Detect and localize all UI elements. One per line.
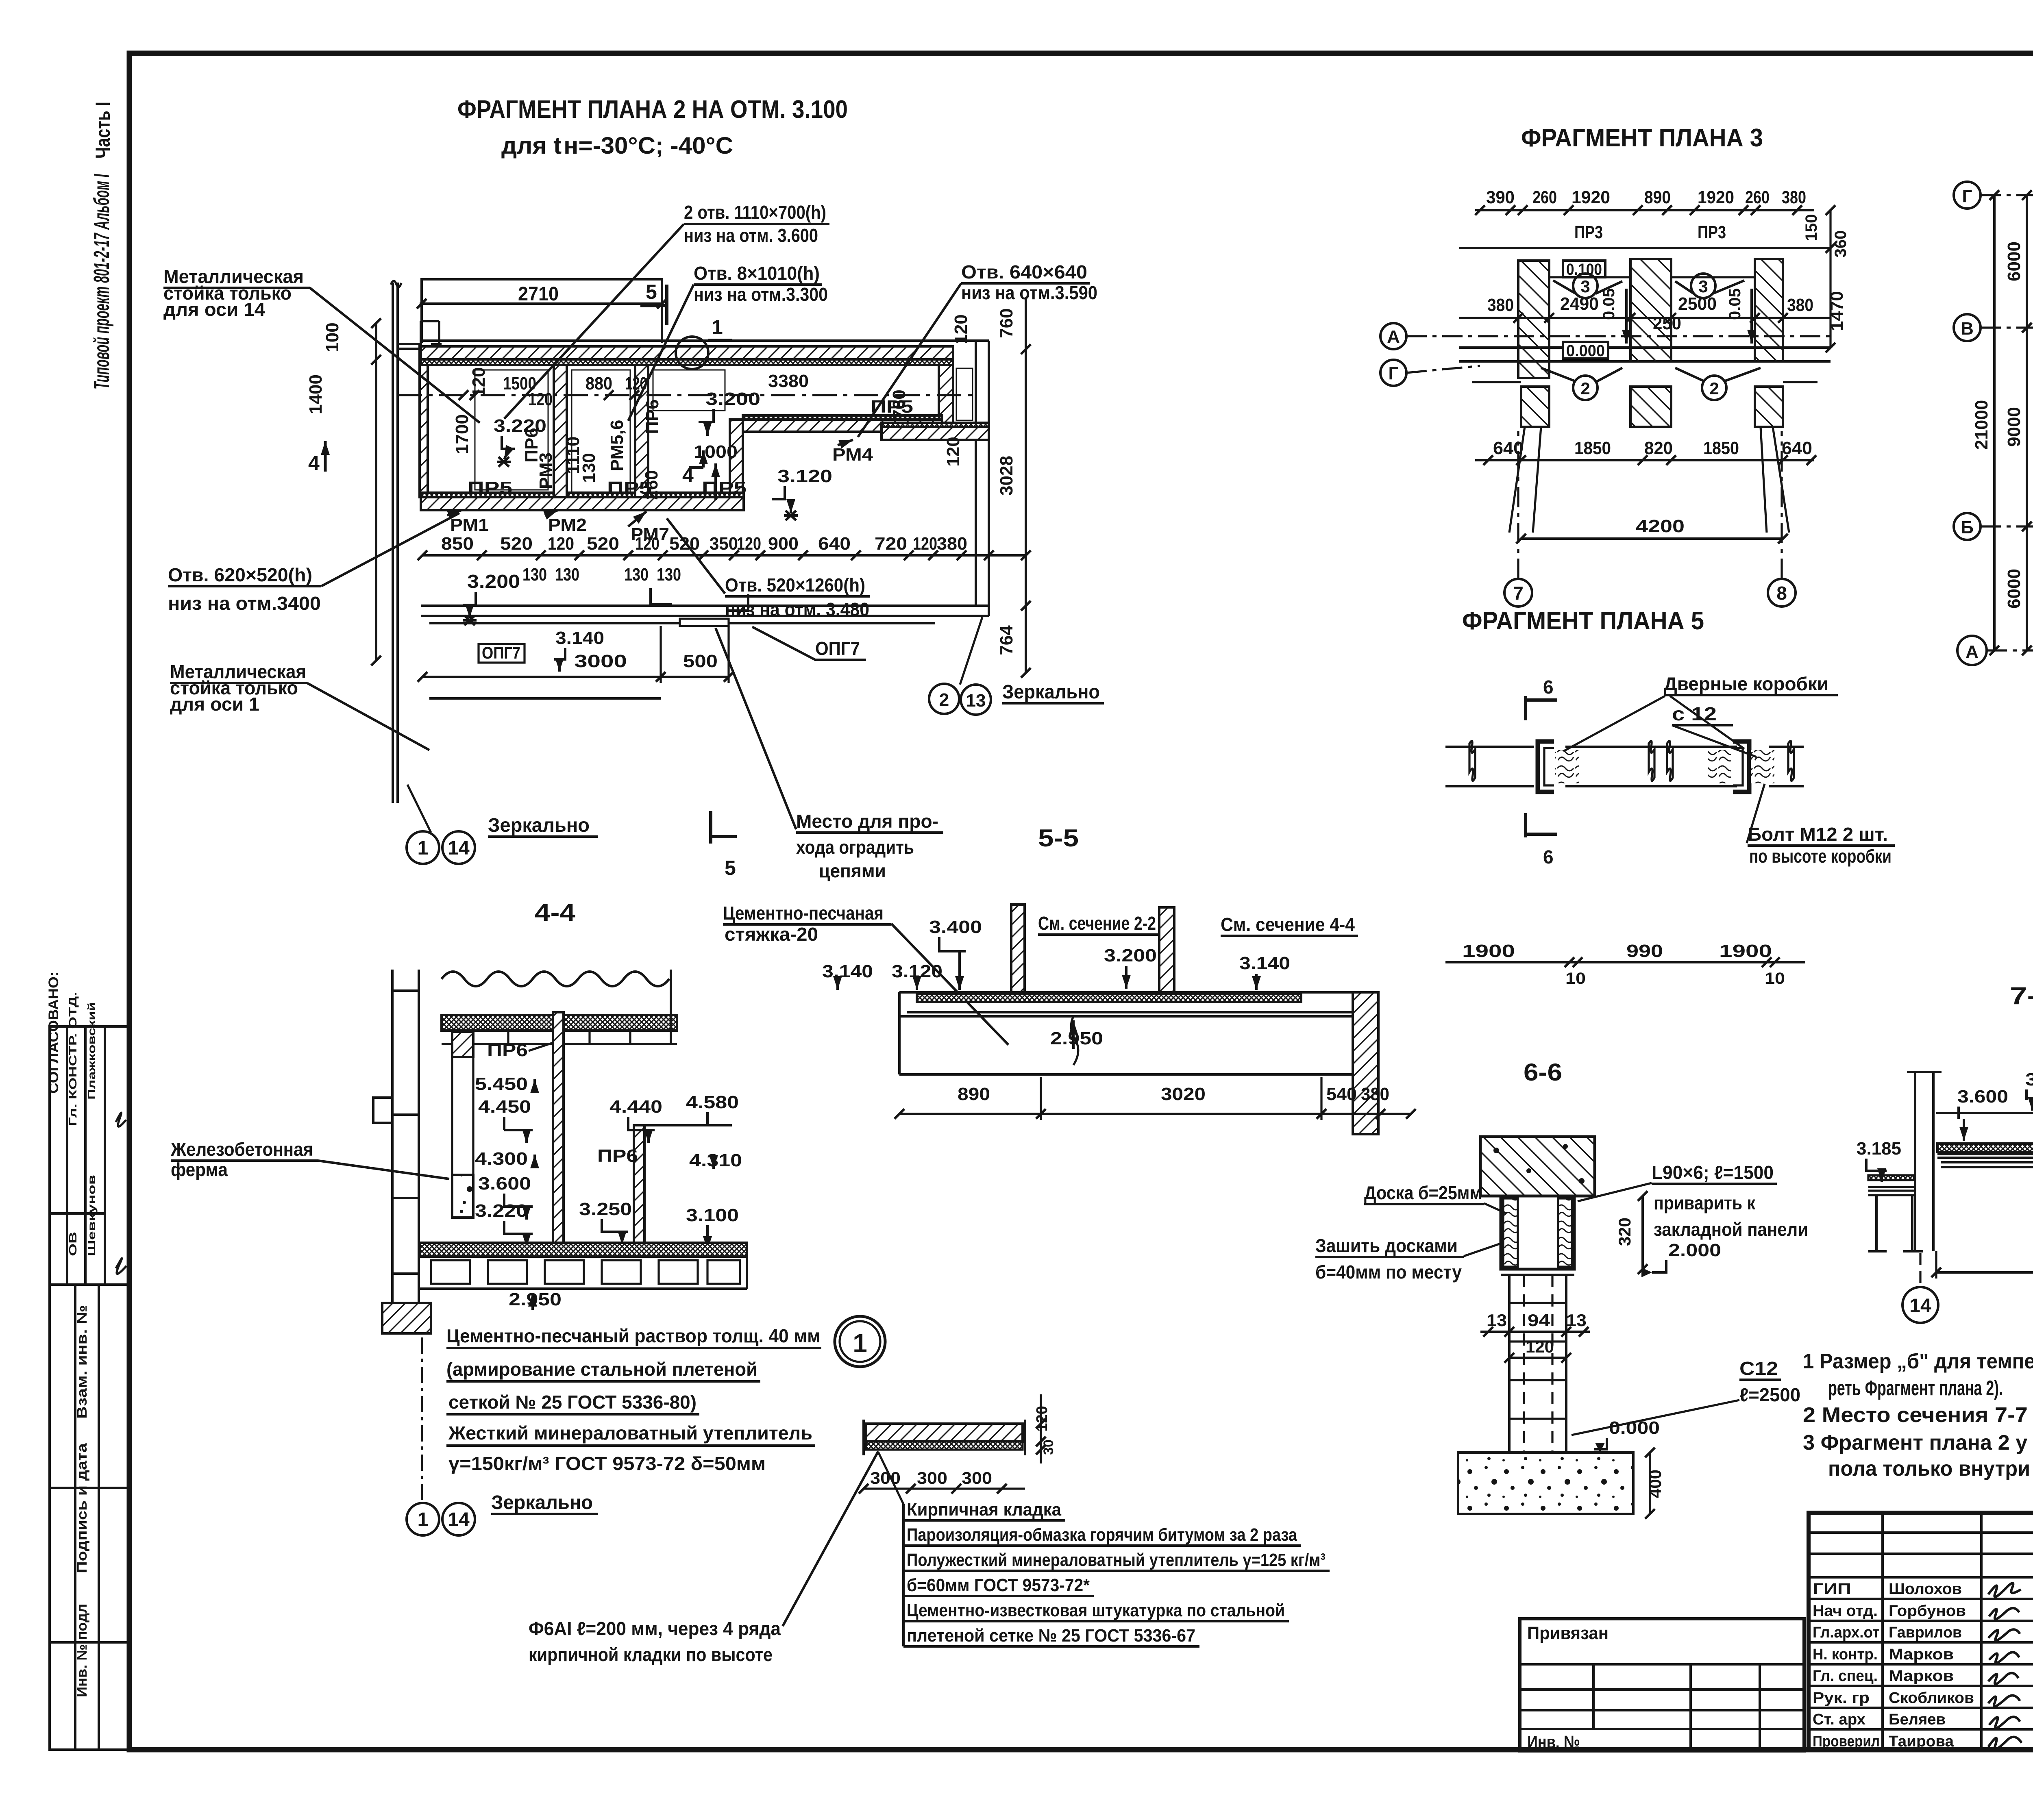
svg-text:6-6: 6-6	[1524, 1059, 1562, 1086]
svg-text:б=40мм по месту: б=40мм по месту	[1315, 1261, 1462, 1283]
svg-text:1: 1	[418, 837, 429, 859]
svg-text:390: 390	[1486, 187, 1515, 207]
svg-text:РМ5,6: РМ5,6	[607, 420, 627, 472]
svg-text:520: 520	[669, 534, 700, 554]
svg-text:990: 990	[1626, 941, 1663, 961]
svg-text:0.000: 0.000	[1609, 1418, 1660, 1438]
svg-text:низ на отм.3.300: низ на отм.3.300	[694, 284, 828, 305]
svg-text:120: 120	[528, 389, 553, 409]
svg-text:900: 900	[768, 534, 799, 554]
svg-text:Зашить досками: Зашить досками	[1315, 1235, 1458, 1256]
svg-text:3.600: 3.600	[1957, 1087, 2008, 1107]
svg-text:500: 500	[683, 651, 718, 671]
svg-text:2710: 2710	[518, 283, 559, 305]
svg-text:2.950: 2.950	[509, 1289, 562, 1309]
svg-text:300: 300	[870, 1468, 901, 1487]
svg-text:360: 360	[1832, 230, 1850, 258]
svg-text:300: 300	[917, 1468, 947, 1487]
svg-text:Часть I: Часть I	[91, 102, 114, 159]
svg-text:3.200: 3.200	[705, 389, 760, 409]
svg-text:764: 764	[997, 625, 1016, 655]
svg-text:3.140: 3.140	[1239, 953, 1290, 973]
svg-text:Гл. спец.: Гл. спец.	[1813, 1668, 1878, 1685]
svg-text:СОГЛАСОВАНО:: СОГЛАСОВАНО:	[46, 972, 61, 1094]
svg-text:Зеркально: Зеркально	[491, 1492, 593, 1513]
svg-text:L90×6; ℓ=1500: L90×6; ℓ=1500	[1652, 1162, 1774, 1183]
svg-text:закладной панели: закладной панели	[1654, 1219, 1808, 1240]
svg-text:820: 820	[1644, 438, 1673, 458]
svg-text:14: 14	[448, 837, 470, 859]
svg-text:4.300: 4.300	[475, 1149, 528, 1169]
svg-text:5-5: 5-5	[1038, 824, 1079, 852]
svg-text:1900: 1900	[1462, 941, 1515, 961]
svg-text:3: 3	[1580, 277, 1590, 296]
svg-text:Цементно-песчаный раствор толщ: Цементно-песчаный раствор толщ. 40 мм	[446, 1325, 821, 1346]
svg-text:Отв. 620×520(h): Отв. 620×520(h)	[168, 564, 312, 585]
svg-text:520: 520	[587, 534, 619, 554]
svg-text:низ на отм.3.590: низ на отм.3.590	[961, 282, 1097, 303]
svg-text:Рук. гр: Рук. гр	[1813, 1690, 1870, 1707]
svg-text:0.05: 0.05	[1600, 288, 1618, 320]
svg-text:Цементно-песчаная: Цементно-песчаная	[723, 902, 884, 924]
svg-text:Кирпичная кладка: Кирпичная кладка	[907, 1500, 1061, 1520]
svg-text:Беляев: Беляев	[1889, 1711, 1946, 1728]
svg-text:14: 14	[448, 1509, 470, 1531]
svg-text:Отв. 8×1010(h): Отв. 8×1010(h)	[694, 263, 820, 284]
svg-text:хода оградить: хода оградить	[796, 837, 914, 858]
svg-text:1920: 1920	[1572, 187, 1610, 207]
svg-text:Марков: Марков	[1889, 1646, 1954, 1663]
svg-text:Г: Г	[1962, 186, 1972, 206]
svg-text:Отв. 520×1260(h): Отв. 520×1260(h)	[725, 574, 865, 596]
svg-text:1: 1	[712, 316, 723, 339]
svg-text:380: 380	[937, 534, 967, 554]
svg-text:Гл.арх.от: Гл.арх.от	[1813, 1624, 1880, 1641]
svg-text:Место для про-: Место для про-	[796, 811, 938, 832]
svg-text:6000: 6000	[2004, 241, 2024, 281]
svg-text:Цементно-известковая штукатурк: Цементно-известковая штукатурка по сталь…	[907, 1600, 1285, 1620]
svg-text:для оси 14: для оси 14	[163, 299, 265, 320]
svg-text:Типовой проект 801-2-17 Альбом: Типовой проект 801-2-17 Альбом I	[89, 174, 114, 389]
svg-text:Болт М12 2 шт.: Болт М12 2 шт.	[1748, 824, 1888, 845]
svg-text:РМ3: РМ3	[536, 452, 556, 489]
svg-text:Жесткий минераловатный утеплит: Жесткий минераловатный утеплитель	[448, 1422, 812, 1444]
svg-text:Инв. №: Инв. №	[1527, 1732, 1580, 1752]
svg-text:320: 320	[1615, 1218, 1634, 1246]
svg-text:3000: 3000	[574, 651, 627, 671]
svg-text:В: В	[1961, 319, 1974, 339]
svg-text:для оси 1: для оси 1	[170, 694, 259, 715]
svg-text:пола только внутри вентиляцион: пола только внутри вентиляционных камер.	[1828, 1457, 2033, 1481]
svg-text:260: 260	[642, 470, 662, 500]
svg-text:4200: 4200	[1636, 516, 1685, 536]
svg-text:Гаврилов: Гаврилов	[1889, 1624, 1962, 1641]
svg-text:13: 13	[1487, 1311, 1507, 1330]
svg-text:3.220: 3.220	[475, 1201, 528, 1221]
svg-text:А: А	[1387, 327, 1400, 347]
svg-text:Шолохов: Шолохов	[1889, 1581, 1962, 1598]
svg-text:0.05: 0.05	[1726, 288, 1744, 320]
svg-text:Зеркально: Зеркально	[1002, 681, 1100, 703]
svg-text:9000: 9000	[2004, 407, 2024, 447]
svg-text:ГИП: ГИП	[1813, 1581, 1851, 1598]
svg-text:с 12: с 12	[1672, 703, 1717, 724]
svg-text:1470: 1470	[1827, 291, 1847, 331]
svg-text:2.950: 2.950	[1050, 1029, 1103, 1048]
svg-text:1: 1	[853, 1329, 867, 1358]
svg-text:плетеной сетке № 25 ГОСТ 5336: плетеной сетке № 25 ГОСТ 5336-67	[907, 1626, 1195, 1646]
svg-text:6: 6	[1543, 846, 1554, 868]
svg-text:ферма: ферма	[171, 1159, 228, 1180]
svg-text:Ст. арх: Ст. арх	[1813, 1711, 1865, 1728]
svg-text:520: 520	[500, 534, 533, 554]
svg-text:3.200: 3.200	[467, 571, 520, 592]
svg-text:Ф6АI ℓ=200 мм, через 4 ряда: Ф6АI ℓ=200 мм, через 4 ряда	[529, 1618, 781, 1639]
svg-text:ПР6: ПР6	[642, 399, 662, 434]
svg-text:13: 13	[1566, 1311, 1587, 1330]
svg-text:ПР5: ПР5	[468, 478, 512, 498]
svg-text:760: 760	[997, 308, 1016, 338]
svg-text:3.250: 3.250	[579, 1199, 632, 1219]
svg-text:5.450: 5.450	[475, 1074, 528, 1094]
svg-text:260: 260	[1532, 187, 1557, 207]
svg-text:низ на отм. 3.600: низ на отм. 3.600	[684, 225, 818, 246]
svg-text:4.310: 4.310	[689, 1150, 742, 1170]
svg-text:ℓ=2500: ℓ=2500	[1739, 1384, 1800, 1405]
svg-text:3: 3	[1698, 277, 1708, 296]
svg-text:3.100: 3.100	[686, 1205, 739, 1225]
svg-text:21000: 21000	[1972, 400, 1992, 450]
svg-text:4.450: 4.450	[478, 1097, 531, 1117]
svg-text:низ на отм.3400: низ на отм.3400	[168, 593, 321, 614]
svg-text:Пароизоляция-обмазка горячим б: Пароизоляция-обмазка горячим битумом за …	[907, 1525, 1297, 1545]
svg-text:890: 890	[958, 1084, 990, 1104]
svg-text:С12: С12	[1739, 1358, 1778, 1379]
svg-text:Полужесткий минераловатный уте: Полужесткий минераловатный утеплитель γ=…	[907, 1550, 1326, 1570]
svg-text:Инв. № подл: Инв. № подл	[74, 1604, 90, 1697]
svg-text:120: 120	[913, 534, 937, 554]
svg-text:Зеркально: Зеркально	[488, 815, 590, 836]
svg-text:3.140: 3.140	[555, 628, 604, 648]
svg-text:880: 880	[586, 374, 612, 394]
svg-text:Проверил: Проверил	[1813, 1733, 1880, 1750]
svg-text:ОПГ7: ОПГ7	[482, 643, 520, 662]
svg-text:1: 1	[418, 1509, 429, 1531]
svg-text:цепями: цепями	[819, 860, 886, 881]
svg-text:Н. контр.: Н. контр.	[1813, 1646, 1878, 1663]
svg-text:кирпичной кладки по высоте: кирпичной кладки по высоте	[529, 1644, 773, 1665]
svg-text:4.580: 4.580	[686, 1092, 739, 1112]
svg-text:γ=150кг/м³ ГОСТ 9573-72 δ=50: γ=150кг/м³ ГОСТ 9573-72 δ=50мм	[448, 1453, 766, 1474]
svg-text:Б: Б	[1961, 518, 1974, 537]
svg-text:13: 13	[966, 691, 986, 711]
svg-text:1400: 1400	[306, 374, 326, 414]
svg-text:3.400: 3.400	[929, 917, 982, 937]
svg-text:120: 120	[548, 534, 574, 554]
svg-text:Марков: Марков	[1889, 1668, 1954, 1685]
svg-text:760: 760	[889, 389, 909, 419]
svg-text:94: 94	[1528, 1311, 1550, 1330]
svg-text:2 отв. 1110×700(h): 2 отв. 1110×700(h)	[684, 202, 826, 223]
svg-text:1850: 1850	[1574, 438, 1611, 458]
svg-text:3028: 3028	[997, 456, 1016, 496]
svg-text:А: А	[1966, 642, 1979, 662]
svg-text:130: 130	[555, 565, 579, 585]
svg-text:150: 150	[1802, 214, 1820, 241]
svg-text:по высоте коробки: по высоте коробки	[1749, 846, 1892, 867]
svg-text:РМ4: РМ4	[832, 445, 873, 465]
svg-text:640: 640	[818, 534, 851, 554]
svg-text:380: 380	[1487, 295, 1514, 315]
svg-text:сеткой № 25 ГОСТ 5336-80): сеткой № 25 ГОСТ 5336-80)	[448, 1392, 697, 1413]
svg-text:1920: 1920	[1698, 187, 1734, 207]
svg-text:380: 380	[1782, 187, 1806, 207]
svg-text:Железобетонная: Железобетонная	[170, 1139, 313, 1160]
svg-text:Дверные коробки: Дверные коробки	[1664, 673, 1828, 694]
svg-text:для t н=-30°С; -40°С: для t н=-30°С; -40°С	[501, 133, 733, 159]
svg-text:ФРАГМЕНТ ПЛАНА 5: ФРАГМЕНТ ПЛАНА 5	[1462, 607, 1704, 635]
svg-text:Привязан: Привязан	[1527, 1623, 1609, 1643]
svg-text:Доска б=25мм: Доска б=25мм	[1364, 1182, 1482, 1203]
svg-text:Взам. инв. №: Взам. инв. №	[74, 1305, 90, 1419]
svg-text:3.120: 3.120	[892, 961, 942, 981]
svg-text:Отв. 640×640: Отв. 640×640	[961, 261, 1087, 283]
svg-text:ПР6: ПР6	[597, 1146, 638, 1166]
svg-text:3.600: 3.600	[478, 1174, 531, 1194]
svg-text:Гл. КОНСТР. ОТД.: Гл. КОНСТР. ОТД.	[67, 992, 79, 1126]
svg-text:0.100: 0.100	[1566, 261, 1602, 278]
svg-text:(армирование стальной плетеной: (армирование стальной плетеной	[446, 1359, 757, 1380]
svg-text:РМ1: РМ1	[450, 515, 489, 535]
svg-text:ПР6: ПР6	[487, 1040, 528, 1060]
svg-text:Таирова: Таирова	[1889, 1733, 1954, 1750]
svg-text:400: 400	[1646, 1470, 1665, 1498]
svg-text:См. сечение 2-2: См. сечение 2-2	[1038, 913, 1156, 934]
svg-text:ОВ: ОВ	[67, 1232, 79, 1256]
svg-text:10: 10	[1565, 970, 1586, 987]
svg-text:120: 120	[625, 374, 647, 394]
svg-text:130: 130	[657, 565, 681, 585]
svg-text:3.850: 3.850	[2025, 1070, 2033, 1089]
svg-text:3.185: 3.185	[1857, 1139, 1901, 1159]
svg-text:реть Фрагмент плана 2).: реть Фрагмент плана 2).	[1828, 1376, 2003, 1400]
svg-text:1700: 1700	[452, 414, 472, 454]
svg-text:10: 10	[1765, 970, 1785, 987]
svg-text:ФРАГМЕНТ ПЛАНА 2 НА ОТМ. 3.100: ФРАГМЕНТ ПЛАНА 2 НА ОТМ. 3.100	[457, 96, 848, 124]
svg-text:См. сечение 4-4: См. сечение 4-4	[1221, 914, 1355, 935]
svg-text:7-7: 7-7	[2010, 982, 2033, 1009]
svg-text:2.000: 2.000	[1668, 1240, 1721, 1260]
svg-text:3.200: 3.200	[1104, 946, 1157, 965]
svg-text:720: 720	[875, 534, 907, 554]
svg-text:3.140: 3.140	[822, 961, 873, 981]
svg-text:ПР3: ПР3	[1574, 222, 1603, 242]
svg-text:4.440: 4.440	[609, 1097, 662, 1117]
svg-text:1850: 1850	[1703, 438, 1739, 458]
svg-text:2: 2	[1709, 379, 1719, 398]
svg-text:120: 120	[635, 534, 660, 554]
svg-text:приварить к: приварить к	[1654, 1192, 1756, 1213]
svg-text:120: 120	[951, 314, 971, 344]
svg-text:Шевкунов: Шевкунов	[85, 1175, 98, 1256]
svg-text:5: 5	[646, 281, 657, 303]
svg-text:6: 6	[1543, 676, 1554, 698]
svg-text:120: 120	[943, 437, 963, 466]
svg-text:380: 380	[1787, 295, 1813, 315]
svg-text:Скобликов: Скобликов	[1889, 1690, 1974, 1707]
svg-text:350: 350	[710, 534, 738, 554]
svg-text:120: 120	[737, 534, 761, 554]
svg-text:1 Размер „б" для температуры: 1 Размер „б" для температуры t н=-30° - …	[1803, 1350, 2033, 1373]
svg-text:540: 540	[1326, 1084, 1357, 1104]
svg-text:3 Фрагмент плана 2 у оси 14 з: 3 Фрагмент плана 2 у оси 14 зеркален фра…	[1803, 1431, 2033, 1455]
svg-text:РМ2: РМ2	[548, 515, 587, 535]
svg-text:ПР3: ПР3	[1698, 222, 1726, 242]
svg-text:Плажковский: Плажковский	[85, 1002, 98, 1100]
svg-text:Подпись и дата: Подпись и дата	[74, 1443, 90, 1573]
svg-text:Г: Г	[1389, 363, 1399, 383]
svg-text:300: 300	[962, 1468, 992, 1487]
svg-text:4-4: 4-4	[535, 899, 576, 926]
svg-text:5: 5	[725, 857, 736, 879]
svg-text:130: 130	[522, 565, 547, 585]
svg-text:14: 14	[1909, 1295, 1931, 1317]
svg-text:1900: 1900	[1719, 941, 1772, 961]
svg-text:130: 130	[579, 453, 599, 483]
svg-text:380: 380	[1361, 1084, 1389, 1104]
svg-text:ОПГ7: ОПГ7	[815, 638, 860, 659]
svg-text:2 Место сечения 7-7 см на лис: 2 Место сечения 7-7 см на листе АР-4.	[1803, 1403, 2033, 1427]
svg-text:ПР5: ПР5	[702, 478, 747, 498]
svg-text:Нач отд.: Нач отд.	[1813, 1603, 1878, 1620]
svg-text:120: 120	[1526, 1337, 1554, 1356]
svg-text:0.000: 0.000	[1566, 342, 1605, 360]
svg-text:3.120: 3.120	[777, 466, 832, 486]
svg-text:8: 8	[1776, 583, 1787, 604]
svg-text:130: 130	[624, 565, 649, 585]
svg-text:б=60мм ГОСТ 9573-72*: б=60мм ГОСТ 9573-72*	[907, 1575, 1090, 1595]
svg-text:стяжка-20: стяжка-20	[725, 924, 818, 945]
svg-text:2: 2	[939, 690, 949, 710]
svg-text:260: 260	[1745, 187, 1770, 207]
svg-text:1000: 1000	[694, 442, 738, 462]
svg-text:3380: 3380	[768, 371, 809, 391]
svg-text:Горбунов: Горбунов	[1889, 1603, 1966, 1620]
svg-text:7: 7	[1513, 583, 1524, 604]
svg-text:100: 100	[322, 322, 342, 352]
svg-text:890: 890	[1644, 187, 1671, 207]
svg-text:850: 850	[441, 534, 474, 554]
svg-text:3020: 3020	[1161, 1084, 1206, 1104]
svg-text:2: 2	[1580, 379, 1590, 398]
svg-text:4: 4	[308, 452, 320, 474]
svg-text:ФРАГМЕНТ ПЛАНА 3: ФРАГМЕНТ ПЛАНА 3	[1521, 124, 1763, 152]
svg-text:6000: 6000	[2004, 569, 2024, 609]
